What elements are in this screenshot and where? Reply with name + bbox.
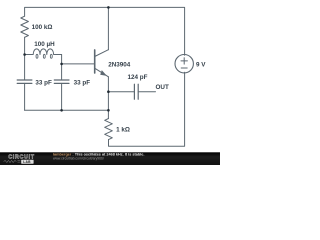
svg-text:33 pF: 33 pF [74, 80, 91, 87]
svg-text:LAB: LAB [23, 160, 31, 164]
resistor R1 [21, 16, 29, 37]
svg-text:9 V: 9 V [196, 62, 206, 69]
wire R2 bottom rail [109, 72, 185, 146]
node: C2 to cap rail [60, 109, 63, 112]
CircuitLab logo [4, 155, 35, 164]
wire C2 bottom lead [61, 83, 63, 110]
node B: L1/C2/base junction [60, 63, 63, 66]
voltage source V1 [175, 55, 193, 73]
svg-text:100 kΩ: 100 kΩ [32, 24, 53, 31]
node A: R1/L1/C1 junction [23, 53, 26, 56]
capacitor C3 [134, 84, 138, 99]
node: emitter rail to cap rail [107, 109, 110, 112]
wire cap bottom rail [25, 109, 109, 111]
wire R1 bottom to node [24, 37, 26, 54]
wire C1 bottom lead [24, 83, 26, 110]
capacitor C1 [17, 80, 32, 83]
wire C3 right OUT stub [138, 91, 155, 93]
svg-text:124 pF: 124 pF [128, 74, 148, 81]
svg-text:2N3904: 2N3904 [108, 61, 131, 68]
transistor Q1 [95, 50, 109, 77]
svg-text:OUT: OUT [156, 84, 169, 91]
svg-text:1 kΩ: 1 kΩ [116, 127, 130, 134]
wire collector rail [107, 7, 109, 49]
node: collector to top rail [107, 6, 110, 9]
wire base [62, 63, 95, 65]
wire top rail [25, 7, 185, 55]
resistor R2 [105, 119, 113, 140]
node: emitter to C3 [107, 90, 110, 93]
inductor L1 [25, 49, 62, 55]
svg-text:100 µH: 100 µH [34, 41, 55, 48]
svg-text:33 pF: 33 pF [35, 80, 52, 87]
wire L1 to base node [61, 55, 63, 64]
wire emitter rail [107, 77, 109, 119]
wire C2 top lead [61, 64, 63, 80]
wire C3 left [108, 91, 134, 93]
capacitor C2 [54, 80, 69, 83]
wire left cap lead [24, 55, 26, 81]
svg-text:www.circuitlab.com/circuit/ary: www.circuitlab.com/circuit/ary966/ [53, 157, 104, 161]
